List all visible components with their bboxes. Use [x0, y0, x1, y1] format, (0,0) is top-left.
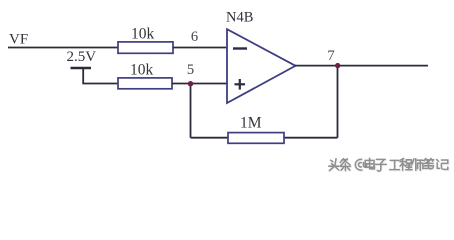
svg-text:2.5V: 2.5V	[67, 49, 97, 65]
svg-text:10k: 10k	[130, 62, 154, 79]
svg-text:5: 5	[187, 62, 194, 78]
resistor R-feedback 1M	[228, 115, 284, 144]
resistor R-bottom 10k	[118, 62, 172, 89]
op-amp triangle	[227, 29, 296, 103]
svg-text:N4B: N4B	[226, 10, 253, 26]
svg-text:6: 6	[191, 29, 198, 45]
svg-text:7: 7	[327, 48, 334, 64]
watermark 头条 @电子工程师笔记 (vector approximation)	[329, 158, 449, 172]
wire feedback right vertical	[337, 66, 339, 138]
power bar symbol 2.5V	[71, 67, 92, 69]
resistor R-top 10k	[118, 26, 173, 54]
svg-text:1M: 1M	[240, 115, 262, 132]
svg-text:10k: 10k	[131, 26, 155, 43]
op-amp minus input symbol	[233, 47, 247, 49]
svg-text:VF: VF	[9, 32, 28, 48]
wire feedback bottom	[191, 137, 338, 139]
wire feedback left vertical	[190, 84, 192, 138]
wire from 2.5V bar	[83, 68, 118, 84]
wire to inverting input	[173, 47, 227, 49]
wire to non-inverting input	[172, 83, 227, 85]
wire VF input	[8, 47, 118, 49]
wire output	[295, 65, 428, 67]
junction node at output	[335, 63, 340, 68]
op-amp plus input symbol	[235, 79, 246, 90]
junction node at pin 5	[188, 81, 193, 86]
